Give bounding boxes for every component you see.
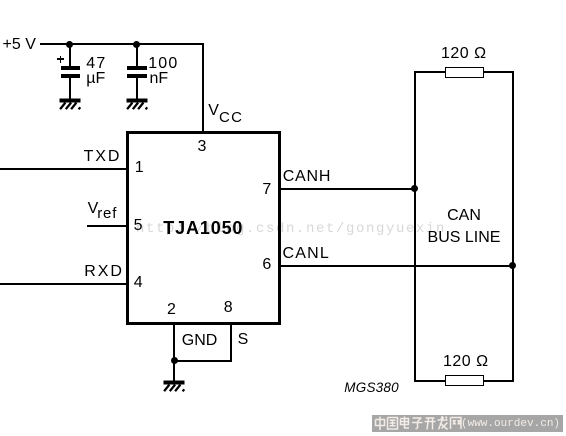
value label R1: 120 Ohm xyxy=(441,47,487,61)
junction dot GND xyxy=(171,357,178,364)
pin 2 number xyxy=(167,303,176,317)
node GND label xyxy=(182,334,218,348)
junction dot C2 xyxy=(133,41,140,48)
node VCC label xyxy=(208,104,243,118)
node Vref label xyxy=(88,202,118,216)
resistor R2 120 Ohm bottom xyxy=(414,380,445,382)
junction dot CANL bus xyxy=(509,262,516,269)
wire +5V rail xyxy=(40,43,204,45)
junction dot C1 xyxy=(66,41,73,48)
wire pin8 to pin2 horizontal xyxy=(173,360,231,362)
label MGS380 xyxy=(344,381,398,395)
ground C1 xyxy=(55,98,89,114)
node +5V label xyxy=(3,38,36,52)
wire TXD xyxy=(0,168,127,170)
node S label xyxy=(238,333,249,347)
ground IC xyxy=(159,380,193,396)
node RXD label xyxy=(84,265,123,279)
capacitor C2 100nF xyxy=(136,44,138,66)
wire bus line left xyxy=(414,71,416,382)
wire RXD xyxy=(0,283,127,285)
pin 8 number xyxy=(224,301,233,315)
IC U1 name label TJA1050 xyxy=(163,221,243,235)
ground C2 xyxy=(122,98,156,114)
wire Vref stub xyxy=(87,225,127,227)
IC U1 TJA1050 body xyxy=(126,131,281,325)
junction dot CANH bus xyxy=(411,185,418,192)
pin 5 number xyxy=(134,219,143,233)
guo xyxy=(388,418,398,430)
wire pin2 GND down xyxy=(173,322,175,381)
zi xyxy=(412,418,423,429)
kai xyxy=(425,418,436,430)
wire VCC vertical xyxy=(202,43,204,132)
wire CANH xyxy=(279,188,416,190)
pin 7 number xyxy=(262,183,271,197)
watermark http://blog.csdn.net/gongyuexin xyxy=(136,222,446,237)
zhong xyxy=(376,417,385,431)
pin 4 number xyxy=(134,276,143,290)
resistor R1 120 Ohm top xyxy=(414,71,445,73)
capacitor C1 47uF xyxy=(69,44,71,66)
wire CANL xyxy=(279,265,514,267)
pin 3 number xyxy=(198,140,207,154)
node TXD label xyxy=(84,150,122,164)
node CAN BUS LINE label xyxy=(414,209,514,223)
pin 1 number xyxy=(135,161,144,175)
node CANH label xyxy=(283,170,332,184)
value label R2: 120 Ohm xyxy=(443,355,489,369)
fa xyxy=(438,416,448,430)
wire pin8 S down xyxy=(230,322,232,362)
banner bottom right xyxy=(372,415,563,432)
node CANL label xyxy=(283,247,330,261)
value label C2: 100 nF xyxy=(148,57,178,71)
pin 6 number xyxy=(262,258,271,272)
wire bus line right xyxy=(512,71,514,382)
wang xyxy=(451,418,462,430)
dian xyxy=(401,417,410,429)
value label C1: 47 uF xyxy=(86,57,106,71)
